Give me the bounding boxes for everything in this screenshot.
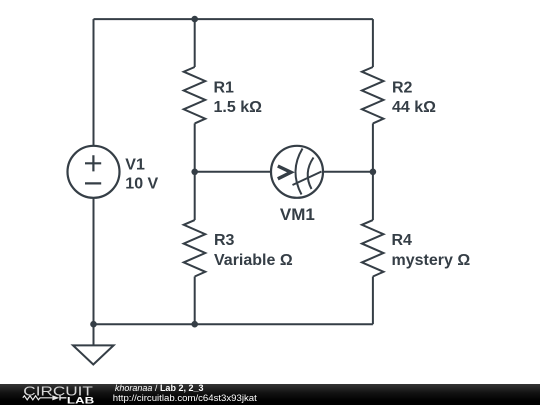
node junction bottom left (ground) [90,321,97,328]
V1 minus mark [85,182,101,184]
svg-text:mystery Ω: mystery Ω [392,252,471,269]
svg-text:R1: R1 [214,80,235,97]
wire R2 top lead [372,19,374,67]
node junction middle right [370,169,377,176]
svg-text:R4: R4 [392,232,413,249]
wire R3 bottom lead [194,277,196,325]
wire R2 bottom lead [372,123,374,171]
wire R4 top lead [372,172,374,220]
voltmeter VM1 body circle [271,146,323,198]
VM1 meter scale arc 2 [308,158,314,190]
wire top rail [94,18,373,20]
wire R1 bottom lead [194,123,196,171]
voltage source V1 body circle [68,146,120,198]
resistor R2 [362,67,384,123]
wire middle left (node to VM1) [195,171,271,173]
svg-text:R2: R2 [392,80,413,97]
node junction middle left [191,169,198,176]
resistor R4 [362,220,384,276]
svg-text:LAB: LAB [67,395,95,405]
wire R4 bottom lead [372,277,374,325]
svg-text:VM1: VM1 [280,205,315,224]
resistor R3 [184,220,206,276]
svg-text:V1: V1 [125,156,145,173]
VM1 needle line [293,172,322,186]
VM1 chevron mark [278,166,291,179]
wire R3 top lead [194,172,196,220]
svg-text:http://circuitlab.com/c64st3x9: http://circuitlab.com/c64st3x93jkat [113,393,257,404]
wire bottom rail [94,323,373,325]
node junction bottom (R3/bottom rail) [191,321,198,328]
node junction top (R1/top rail) [191,16,198,23]
V1 plus mark [85,155,101,171]
wire middle right (VM1 to node) [323,171,373,173]
resistor R1 [184,67,206,123]
svg-text:44 kΩ: 44 kΩ [392,99,436,116]
svg-text:10 V: 10 V [125,176,158,193]
logo diode [52,395,59,400]
svg-text:khoranaa / Lab 2, 2_3: khoranaa / Lab 2, 2_3 [115,383,204,393]
wire left column upper [93,19,95,146]
wire left column lower [93,198,95,345]
ground [73,345,114,364]
VM1 meter scale arc 1 [295,149,302,195]
svg-text:R3: R3 [214,232,235,249]
svg-text:Variable Ω: Variable Ω [214,252,293,269]
svg-text:1.5 kΩ: 1.5 kΩ [214,99,263,116]
logo resistor squiggle [23,396,53,400]
wire R1 top lead [194,19,196,67]
